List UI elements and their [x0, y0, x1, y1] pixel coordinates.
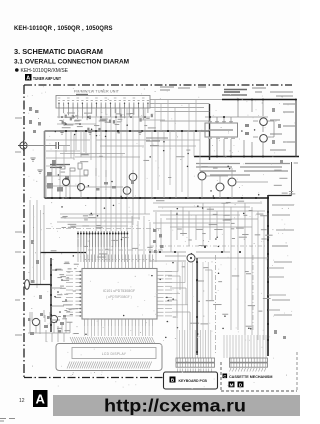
tuner unit pin ticks: [59, 103, 148, 109]
cassette connector row 2: [230, 363, 268, 367]
power bus (heavy, bottom of front-end): [45, 197, 269, 199]
antenna jack J1: [18, 140, 29, 151]
tuner unit pin top dots: [58, 103, 148, 104]
svg-text:( uPD75P308GF ): ( uPD75P308GF ): [106, 295, 132, 299]
svg-text:IC101 uPD75308GF: IC101 uPD75308GF: [103, 289, 135, 293]
svg-text:CASSETTE MECHANISM: CASSETTE MECHANISM: [229, 375, 272, 379]
left cluster extra wires: [46, 131, 84, 198]
wire: antenna lead: [27, 145, 56, 147]
svg-text:C: C: [223, 374, 226, 378]
bus stub y195 right: [268, 195, 292, 197]
transistor Q901: [32, 318, 39, 325]
transistor Q302: [216, 183, 224, 191]
svg-text:KEH-1010QR , 1050QR , 1050QRS: KEH-1010QR , 1050QR , 1050QRS: [14, 26, 113, 32]
supply bus left (dark): [50, 258, 52, 332]
svg-text:A: A: [26, 76, 30, 82]
keyboard label B square: [170, 377, 176, 384]
bus vertical at mid: [209, 104, 211, 160]
wires around Q301-Q303: [202, 168, 268, 198]
wire bundle to keyboard connector: [177, 330, 211, 358]
svg-text:12: 12: [19, 398, 25, 404]
svg-text:KEH-1010QR/XM/SE: KEH-1010QR/XM/SE: [21, 68, 69, 74]
keyboard connector ticks: [178, 358, 212, 367]
wires CN101 to IC101: [78, 247, 127, 262]
tuner unit pin number marks: [58, 100, 149, 102]
wire bundle right of CN101: [132, 212, 161, 262]
wires transistor cluster: [66, 168, 133, 198]
resistor marks left cluster: [60, 163, 88, 175]
wire bundle to cassette connector: [224, 335, 266, 358]
wires Q601/Q602: [253, 100, 274, 157]
battery supply line (heavy top right): [222, 99, 296, 101]
cassette connector ticks: [231, 358, 266, 367]
IC101 left pin dots: [79, 271, 81, 317]
boundary dash line y228: [46, 228, 163, 230]
junction dots on heavy vertical: [267, 197, 269, 341]
IC601 pin pads: [208, 121, 235, 139]
cassette label C square: [223, 374, 228, 379]
IC101 left pins: [76, 272, 83, 316]
right frame vertical: [291, 162, 293, 196]
transistor Q401 arrow: [190, 257, 192, 259]
wire bundle: long vertical runs to control section: [96, 108, 145, 231]
connector CN101 pins: [78, 231, 127, 247]
cassette M square: [229, 382, 235, 388]
scattered junction dots: [54, 124, 260, 338]
vertical harness to mechanism connectors: [171, 203, 264, 340]
tuner amp unit boundary (chain line left): [23, 85, 25, 378]
wire bundle left side vertical: [30, 200, 44, 288]
IC101 bottom pins: [85, 319, 153, 326]
horizontal links front-end: [46, 140, 200, 166]
mechanism power bus x197: [196, 258, 198, 355]
bottom-left vertical links to display: [30, 312, 64, 342]
wires IC601 bottom: [210, 139, 252, 157]
IC601 label mark: [209, 129, 233, 131]
wires IC601 top: [205, 100, 268, 124]
unit label A TUNER AMP UNIT: [25, 74, 61, 82]
power bus horizontal mid-right: [194, 156, 299, 158]
cassette D square: [238, 382, 244, 388]
tuner unit module box: [56, 96, 150, 109]
IC101 right pin labels: [165, 272, 172, 316]
transistor Q602: [260, 135, 268, 143]
cassette mechanism dashed border right: [296, 352, 298, 391]
parts near Q901: [30, 322, 64, 335]
tuner unit pin label smudges: [58, 97, 145, 99]
transistor Q601: [260, 118, 268, 126]
big page marker A: [33, 390, 48, 407]
stub wires from heavy vertical: [268, 268, 286, 310]
transistor Q902: [50, 315, 57, 322]
IC101 right pins: [157, 272, 164, 316]
power bus (heavy vertical right): [267, 195, 269, 356]
LCD display box: [72, 348, 156, 359]
model bullet line: [15, 68, 69, 74]
keyboard connector row 2: [176, 363, 215, 367]
connector CN101 dark pads: [77, 233, 128, 235]
transistor Q401: [187, 254, 195, 262]
junction dots bus x197: [196, 261, 198, 353]
wires in left cluster: [46, 166, 88, 198]
front-end section border (top): [45, 130, 210, 132]
extra parts bottom-left cluster: [28, 313, 66, 333]
dash-dot service line x253: [252, 255, 254, 330]
svg-text:A: A: [36, 392, 46, 407]
transistor Q204: [123, 187, 131, 195]
left cluster small parts mid: [31, 240, 42, 299]
display module outer box: [56, 344, 162, 371]
transistor Q203: [129, 173, 137, 181]
display comb bottom: [67, 362, 152, 369]
staircase wires right of IC101: [168, 270, 212, 330]
wire bundle: tuner unit pins descending: [59, 108, 148, 120]
tuner box top label: [76, 94, 88, 96]
top right smudge marks: [160, 87, 266, 92]
microcontroller IC101 body: [82, 269, 157, 320]
boundary dash vertical x215: [215, 255, 217, 353]
front-end horizontal wires: [60, 154, 140, 158]
diode D601: [245, 124, 249, 135]
vertical wires front-end mid grid: [152, 100, 200, 199]
junction dots on front-end top edge: [65, 130, 197, 132]
transistor Q202: [78, 184, 85, 191]
junction dots on left bus: [50, 264, 52, 326]
IC101 left pin labels: [66, 272, 73, 316]
wires tuner box right to mid bus: [150, 100, 222, 122]
bottom-left stray marks: [0, 419, 15, 422]
right margin labels mid: [272, 205, 294, 315]
wires IC101 bottom to display: [85, 326, 153, 336]
front-end section border (left): [44, 131, 46, 198]
svg-text:FM/MW/LW TUNER UNIT: FM/MW/LW TUNER UNIT: [74, 90, 120, 94]
keyboard connector lower ticks: [178, 369, 212, 372]
left margin tiny labels: [15, 118, 22, 335]
tuner amp unit boundary (chain line bottom): [24, 377, 163, 379]
dots between bus and IC101: [55, 269, 67, 323]
horizontal harness bundle mid-right: [153, 203, 265, 227]
right margin labels top: [270, 92, 296, 150]
supply line right vertical: [295, 100, 297, 158]
IC601 regulator box: [205, 123, 238, 137]
label BATTERY (gray text marks): [224, 90, 247, 93]
coil L201 cluster: [47, 160, 69, 192]
keyboard pcb label box: [164, 372, 218, 389]
IC101 top pin labels: [84, 259, 154, 261]
scattered component label marks: [51, 113, 298, 326]
extra ticks bottom-left cluster: [32, 310, 70, 333]
power connector (oval) at boundary: [25, 280, 30, 290]
svg-text:TUNER AMP UNIT: TUNER AMP UNIT: [33, 76, 61, 81]
resistor marks near Q203/Q204: [96, 180, 134, 191]
cassette connector row 1: [230, 358, 268, 362]
svg-text:http://cxema.ru: http://cxema.ru: [104, 396, 246, 416]
capacitor C101: [56, 142, 59, 149]
svg-text:3. SCHEMATIC DIAGRAM: 3. SCHEMATIC DIAGRAM: [14, 47, 103, 56]
speaker output labels (gray text rows): [196, 164, 290, 176]
wires mechanism interface row: [150, 252, 268, 261]
left bus branch stubs: [51, 270, 64, 320]
cassette hatch below connector: [230, 368, 266, 372]
keyboard connector row 1: [176, 358, 215, 362]
small parts under tuner left: [29, 107, 41, 133]
wire: horizontal run under tuner unit: [57, 117, 165, 124]
extended vertical bundle to keyboard: [177, 262, 208, 330]
svg-text:B: B: [171, 378, 175, 384]
fuse mark: [222, 94, 247, 96]
cassette mechanism dashed border left: [220, 362, 222, 391]
mechanism boundary dash line: [150, 245, 266, 247]
scan speckle dark flecks: [29, 89, 290, 376]
watermark banner: [53, 395, 300, 416]
junction dots on power bus: [51, 197, 269, 199]
transistor Q201: [63, 179, 70, 186]
wire: power lead to bus: [30, 284, 52, 286]
ground bar: [40, 252, 86, 254]
label marks VOL/BAL: [50, 165, 70, 168]
transistor Q301: [198, 172, 206, 180]
wire antenna to front-end: [59, 145, 71, 147]
ground symbols left column: [30, 131, 142, 173]
wires bottom-left cluster: [28, 315, 70, 333]
display connector comb top: [70, 337, 155, 344]
harness bundle left part: [57, 214, 150, 226]
transistor Q303: [228, 178, 236, 186]
svg-text:M: M: [230, 382, 234, 387]
parts between bus and IC101: [53, 264, 79, 333]
IC101 top pins: [85, 255, 153, 269]
svg-text:LCD DISPLAY: LCD DISPLAY: [102, 352, 127, 356]
junction dots supply: [209, 99, 297, 158]
right margin small parts: [272, 108, 286, 339]
tuner amp unit boundary (chain line top): [24, 84, 292, 86]
IC101 corner wires right: [164, 252, 189, 305]
scan speckle (decorative texture omitted from labelling): [27, 86, 295, 391]
cassette mechanism dashed border bottom: [221, 390, 297, 392]
label marks ANT area: [146, 138, 168, 141]
front-end vertical stubs from top edge: [66, 131, 106, 160]
svg-text:3.1 OVERALL CONNECTION DIARAM: 3.1 OVERALL CONNECTION DIARAM: [14, 59, 129, 66]
svg-text:KEYBOARD PCB: KEYBOARD PCB: [179, 379, 208, 383]
small parts column left of mechanism: [153, 229, 164, 253]
junction dots under tuner: [61, 116, 146, 125]
component cluster under tuner unit (capacitors/resistors): [62, 114, 153, 134]
junction dots mechanism row: [149, 246, 241, 253]
boundary dash line y250: [88, 249, 163, 251]
